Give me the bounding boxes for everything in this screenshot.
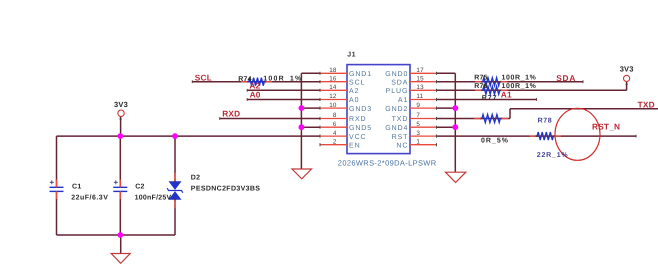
svg-text:A0: A0 <box>349 97 359 104</box>
svg-text:100nF/25V: 100nF/25V <box>135 194 172 202</box>
svg-text:GND5: GND5 <box>349 125 372 132</box>
svg-text:100R_1%: 100R_1% <box>502 83 537 90</box>
svg-text:22R_1%: 22R_1% <box>537 152 569 159</box>
svg-text:PESDNC2FD3V3BS: PESDNC2FD3V3BS <box>191 185 260 192</box>
svg-text:3V3: 3V3 <box>620 64 634 73</box>
svg-text:A1: A1 <box>501 90 512 100</box>
svg-text:D2: D2 <box>191 175 201 182</box>
svg-text:R74: R74 <box>238 76 251 83</box>
svg-text:12: 12 <box>329 93 337 100</box>
svg-text:2: 2 <box>333 138 337 145</box>
svg-text:TXD: TXD <box>638 99 655 109</box>
svg-text:0R_5%: 0R_5% <box>481 137 509 144</box>
svg-text:GND0: GND0 <box>385 71 408 78</box>
svg-text:GND2: GND2 <box>385 106 408 113</box>
svg-text:2026WRS-2*09DA-LPSWR: 2026WRS-2*09DA-LPSWR <box>338 159 437 168</box>
svg-text:8: 8 <box>333 112 337 119</box>
svg-text:11: 11 <box>416 93 423 100</box>
svg-text:10: 10 <box>329 102 337 109</box>
svg-text:17: 17 <box>416 67 424 74</box>
svg-text:RXD: RXD <box>222 109 240 119</box>
svg-text:EN: EN <box>349 142 361 149</box>
svg-text:GND1: GND1 <box>349 71 372 78</box>
svg-text:GND3: GND3 <box>349 106 372 113</box>
svg-text:15: 15 <box>416 75 424 82</box>
svg-text:NC: NC <box>396 142 408 149</box>
svg-text:13: 13 <box>416 84 424 91</box>
svg-text:RXD: RXD <box>349 116 366 123</box>
svg-text:SCL: SCL <box>195 73 212 83</box>
svg-text:5: 5 <box>416 121 420 128</box>
svg-text:14: 14 <box>329 84 337 91</box>
svg-text:VCC: VCC <box>349 134 366 141</box>
svg-text:RST_N: RST_N <box>592 122 620 132</box>
svg-text:16: 16 <box>329 75 337 82</box>
svg-text:TXD: TXD <box>392 116 409 123</box>
svg-text:A0: A0 <box>250 89 261 99</box>
svg-text:C2: C2 <box>135 184 145 191</box>
svg-text:100R_1%: 100R_1% <box>502 75 537 82</box>
svg-text:SDA: SDA <box>556 73 576 83</box>
svg-text:100R_1%: 100R_1% <box>263 76 302 83</box>
svg-text:A1: A1 <box>398 97 408 104</box>
svg-text:C1: C1 <box>72 184 82 191</box>
svg-text:1: 1 <box>416 138 420 145</box>
svg-text:7: 7 <box>416 112 420 119</box>
svg-text:PLUG: PLUG <box>386 88 409 95</box>
svg-text:GND4: GND4 <box>385 125 408 132</box>
svg-text:R78: R78 <box>538 118 553 125</box>
svg-text:6: 6 <box>333 121 337 128</box>
svg-text:4: 4 <box>333 130 337 137</box>
svg-text:R75: R75 <box>474 75 487 82</box>
svg-text:SCL: SCL <box>349 79 365 86</box>
svg-text:R76: R76 <box>474 83 487 90</box>
svg-text:RST: RST <box>392 134 409 141</box>
svg-text:J1: J1 <box>347 51 356 58</box>
svg-text:9: 9 <box>416 102 420 109</box>
svg-text:3: 3 <box>416 130 420 137</box>
svg-text:R77: R77 <box>482 95 498 102</box>
svg-text:18: 18 <box>329 67 337 74</box>
svg-text:SDA: SDA <box>391 79 408 86</box>
svg-text:22uF/6.3V: 22uF/6.3V <box>71 194 108 202</box>
svg-text:3V3: 3V3 <box>114 100 128 109</box>
svg-text:A2: A2 <box>349 88 359 95</box>
